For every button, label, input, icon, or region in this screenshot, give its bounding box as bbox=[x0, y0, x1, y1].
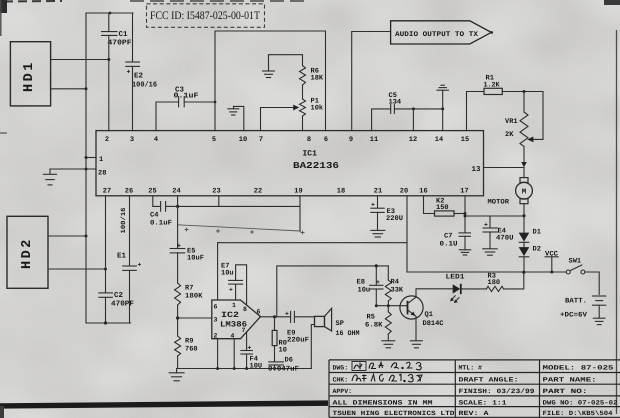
svg-text:3: 3 bbox=[130, 136, 134, 144]
wire E1 to bottom rail bbox=[129, 270, 131, 323]
potentiometer VR1 bbox=[520, 112, 528, 146]
svg-text:26: 26 bbox=[125, 188, 133, 196]
capacitor C7 bbox=[459, 233, 471, 250]
svg-text:4: 4 bbox=[154, 136, 158, 144]
svg-text:33K: 33K bbox=[391, 287, 404, 295]
svg-text:SCALE: 1:1: SCALE: 1:1 bbox=[459, 399, 507, 406]
VR1 wiper arrow bbox=[527, 137, 533, 143]
wire node B to IC2 pin 3 bbox=[178, 317, 212, 319]
svg-text:10U: 10U bbox=[250, 363, 263, 371]
svg-text:134: 134 bbox=[389, 99, 402, 107]
resistor R6 bbox=[300, 66, 306, 85]
junction C4 / pin24 / E5 bbox=[176, 205, 179, 208]
capacitor E1 electrolytic bbox=[123, 262, 142, 271]
svg-text:D1: D1 bbox=[533, 229, 541, 237]
wire VR1 top lead bbox=[523, 92, 525, 113]
capacitor C2 bbox=[99, 293, 113, 297]
svg-text:24: 24 bbox=[172, 188, 180, 196]
wire E8 top lead bbox=[375, 266, 377, 285]
junction HD2 bottom / pin27 riser bbox=[104, 268, 107, 271]
capacitor E3 electrolytic bbox=[371, 202, 384, 230]
wire E5 to R7 bbox=[177, 253, 179, 283]
svg-text:+: + bbox=[229, 287, 233, 294]
supply rail to pin 20 bbox=[218, 242, 407, 244]
svg-text:DWG:: DWG: bbox=[333, 365, 349, 372]
potentiometer P1 bbox=[300, 99, 306, 116]
wire R1 to VR1 top bbox=[502, 91, 543, 93]
svg-text:D6: D6 bbox=[285, 357, 293, 365]
wire C3 to pin5 riser bbox=[184, 101, 215, 103]
junction C3 / pin5 riser bbox=[214, 101, 217, 104]
battery BATT bbox=[593, 296, 606, 318]
diode D2 bbox=[519, 247, 530, 257]
ground (below C7) bbox=[459, 250, 470, 255]
LED1 bbox=[450, 284, 461, 303]
capacitor C3 bbox=[179, 97, 185, 107]
VCC label bbox=[545, 251, 558, 273]
capacitor F4 bypass electrolytic bbox=[241, 345, 252, 355]
svg-text:19: 19 bbox=[294, 188, 302, 196]
ground (pin 10) bbox=[228, 106, 239, 115]
svg-text:18: 18 bbox=[337, 188, 345, 196]
svg-text:FCC ID: I5487-025-00-01T: FCC ID: I5487-025-00-01T bbox=[150, 10, 260, 22]
wire D2 to VCC rail bbox=[523, 257, 525, 273]
capacitor E4 electrolytic bbox=[483, 216, 497, 249]
capacitor C4 bbox=[161, 202, 166, 212]
IC1 pin labels top row bbox=[105, 136, 469, 144]
svg-text:470PF: 470PF bbox=[108, 39, 133, 48]
svg-text:10k: 10k bbox=[311, 104, 324, 113]
svg-text:0.1U: 0.1U bbox=[440, 241, 458, 249]
svg-text:11: 11 bbox=[370, 136, 378, 144]
junction motor bottom bbox=[522, 214, 525, 217]
svg-text:180: 180 bbox=[488, 279, 501, 287]
svg-text:23: 23 bbox=[212, 188, 220, 196]
wire C1 riser upper bbox=[108, 13, 110, 31]
svg-text:DWG NO: 07-025-02: DWG NO: 07-025-02 bbox=[543, 399, 618, 406]
wire R5 to ground bbox=[387, 334, 389, 341]
junction node B (R7/R9/IC2 pin3) bbox=[176, 316, 179, 319]
resistor R0 (box) bbox=[272, 317, 277, 362]
svg-text:R5: R5 bbox=[367, 314, 375, 322]
svg-text:SW1: SW1 bbox=[569, 258, 582, 266]
wire R4 to base node bbox=[387, 301, 389, 306]
wire left bus riser bbox=[85, 13, 87, 323]
svg-text:AUDIO OUTPUT TO TX: AUDIO OUTPUT TO TX bbox=[395, 31, 479, 39]
capacitor E9 electrolytic bbox=[285, 311, 294, 323]
wire motor top lead bbox=[523, 168, 525, 178]
svg-text:DRAFT ANGLE:: DRAFT ANGLE: bbox=[459, 377, 519, 384]
wire F4 to ground rail bbox=[246, 354, 248, 369]
IC1 pin labels bottom row bbox=[103, 188, 469, 196]
wire faint link E5 to pin 19 bbox=[178, 225, 305, 235]
wire HD1 bottom output bbox=[51, 88, 86, 90]
wire pin 26 riser bbox=[129, 196, 131, 266]
ground (below battery) bbox=[593, 318, 605, 324]
svg-text:27: 27 bbox=[103, 188, 111, 196]
svg-text:IC2: IC2 bbox=[221, 311, 239, 320]
diode D1 bbox=[519, 233, 530, 243]
svg-text:MOTOR: MOTOR bbox=[488, 199, 510, 207]
svg-text:1.2K: 1.2K bbox=[484, 82, 501, 90]
svg-text:REV: A: REV: A bbox=[459, 410, 489, 417]
svg-text:R4: R4 bbox=[391, 279, 399, 287]
svg-text:M: M bbox=[522, 189, 527, 197]
svg-text:22: 22 bbox=[254, 188, 262, 196]
svg-text:20: 20 bbox=[400, 188, 408, 196]
HD2 block bbox=[7, 216, 48, 288]
wire E9 to speaker bbox=[295, 316, 315, 318]
svg-text:10uF: 10uF bbox=[187, 255, 204, 263]
svg-text:HD2: HD2 bbox=[20, 237, 35, 269]
svg-text:760: 760 bbox=[185, 346, 198, 354]
svg-text:180K: 180K bbox=[185, 293, 203, 301]
wire pin 13 to motor bbox=[484, 167, 525, 169]
wire E8 to base node bbox=[375, 289, 377, 306]
wire motor bottom lead bbox=[523, 204, 525, 233]
wire E2 riser upper bbox=[132, 13, 134, 62]
junction top rail / C1 bbox=[109, 12, 112, 15]
wire pin 10 riser bbox=[234, 106, 244, 130]
resistor R1 (box) bbox=[484, 88, 502, 94]
junction HD1 bottom / left bus bbox=[85, 87, 88, 90]
svg-text:+: + bbox=[376, 279, 380, 286]
wire node A horizontal (pins 23,19) bbox=[178, 205, 300, 207]
title block CHK handwriting bbox=[352, 374, 422, 382]
svg-text:21: 21 bbox=[374, 188, 382, 196]
wire pin 23 stub bbox=[218, 196, 220, 207]
wire pin 19 riser bbox=[299, 196, 301, 232]
svg-text:C2: C2 bbox=[114, 291, 124, 300]
svg-text:7: 7 bbox=[259, 136, 263, 144]
wire E2 to pin 3 bbox=[132, 66, 134, 130]
wire pin 12 riser bbox=[412, 109, 414, 131]
wire C1 to pin 2 bbox=[108, 35, 110, 130]
transistor Q1 bbox=[400, 296, 423, 319]
wire R6 top lead bbox=[302, 55, 304, 66]
VCC rail wire bbox=[407, 271, 566, 273]
wire pin 20 riser bbox=[406, 196, 408, 272]
wire IC2 output bbox=[261, 316, 291, 318]
svg-text:0.1uF: 0.1uF bbox=[150, 220, 172, 228]
junction output / R0 bbox=[273, 315, 276, 318]
top supply rail bbox=[86, 12, 133, 14]
svg-text:HD1: HD1 bbox=[22, 60, 37, 92]
ground (below E4) bbox=[483, 249, 497, 255]
wire pin 7 riser to P1 wiper bbox=[261, 108, 295, 131]
wire HD2 top output bbox=[48, 235, 86, 237]
wire motor net to pin 17 net bbox=[465, 215, 524, 217]
svg-text:6: 6 bbox=[324, 136, 328, 144]
junction HD1 top wire bbox=[107, 58, 110, 61]
svg-text:D814C: D814C bbox=[423, 320, 444, 328]
wire HD2 bottom output bbox=[48, 268, 106, 270]
speaker SP bbox=[315, 308, 332, 331]
op-amp IC2 body bbox=[212, 300, 261, 339]
svg-text:220U: 220U bbox=[386, 215, 403, 223]
svg-text:MTL: #: MTL: # bbox=[459, 365, 483, 372]
svg-text:470PF: 470PF bbox=[111, 300, 134, 309]
wire Q1 emitter to ground bbox=[415, 316, 417, 340]
ground (below R5) bbox=[382, 341, 395, 348]
svg-text:14: 14 bbox=[435, 136, 443, 144]
wire pin 21 riser bbox=[377, 196, 379, 208]
junction base / E8 bbox=[375, 304, 378, 307]
svg-text:BATT.: BATT. bbox=[565, 298, 587, 306]
wire pin 4 riser bbox=[156, 102, 178, 131]
ground (below E3) bbox=[371, 230, 385, 237]
svg-text:APPV:: APPV: bbox=[333, 388, 353, 395]
svg-text:0.1uF: 0.1uF bbox=[174, 92, 200, 101]
svg-text:17: 17 bbox=[460, 188, 468, 196]
svg-text:5: 5 bbox=[212, 136, 216, 144]
wire C5 to pin 14 riser bbox=[394, 108, 442, 110]
svg-text:+: + bbox=[371, 202, 375, 209]
junction bottom rail / C2 bbox=[104, 321, 107, 324]
capacitor C6 bbox=[269, 362, 284, 369]
svg-text:FILE: D:\KB5\504: FILE: D:\KB5\504 bbox=[543, 410, 613, 417]
wire pin 9 riser to audio banner bbox=[352, 32, 391, 131]
svg-text:2: 2 bbox=[105, 136, 109, 144]
svg-text:16 OHM: 16 OHM bbox=[336, 330, 360, 338]
svg-text:8: 8 bbox=[243, 306, 247, 313]
wire pin 16 stub bbox=[424, 196, 435, 214]
switch SW1 bbox=[566, 265, 585, 274]
wire R5 top lead bbox=[387, 306, 389, 312]
svg-text:470U: 470U bbox=[496, 235, 514, 243]
wire LED1 to R3 bbox=[461, 288, 487, 290]
svg-text:Q1: Q1 bbox=[425, 311, 433, 319]
wire VR1 wiper return bbox=[530, 92, 543, 140]
svg-text:MODEL: 87-025: MODEL: 87-025 bbox=[543, 365, 614, 372]
junction R1 wire / VR1 bbox=[523, 90, 526, 93]
svg-text:220uF: 220uF bbox=[287, 337, 309, 345]
ground (inverted, above pin 14) bbox=[437, 85, 448, 90]
svg-text:BA22136: BA22136 bbox=[293, 161, 339, 171]
junction HD2 top / left bus bbox=[85, 235, 88, 238]
HD1 block bbox=[10, 42, 50, 106]
wire IC2 pin 6 riser bbox=[217, 243, 219, 300]
resistor R5 bbox=[385, 312, 391, 334]
wire D1 to D2 bbox=[523, 242, 525, 247]
svg-text:2: 2 bbox=[214, 333, 218, 340]
wire output coupling riser to E8/R4 bbox=[277, 266, 389, 317]
junction pin28 wire / left bus bbox=[85, 168, 88, 171]
wire R7 to node B bbox=[177, 305, 179, 336]
wire E5 riser bbox=[177, 206, 179, 248]
svg-text:18K: 18K bbox=[311, 75, 324, 83]
svg-text:+: + bbox=[484, 222, 488, 229]
svg-text:16: 16 bbox=[419, 188, 427, 196]
wire ground to R6 top bbox=[269, 54, 303, 56]
wire R6 to P1 bbox=[302, 85, 304, 99]
resistor R7 bbox=[175, 283, 181, 305]
svg-text:R9: R9 bbox=[185, 338, 193, 346]
svg-text:25: 25 bbox=[148, 188, 156, 196]
svg-text:LED1: LED1 bbox=[446, 274, 465, 282]
wire E7 loop to IC2 pin 8 bbox=[236, 265, 247, 305]
wire C2 to bottom rail bbox=[105, 297, 107, 323]
wire pin14 riser to upper ground bbox=[442, 90, 444, 109]
audio ground rail bbox=[177, 368, 311, 370]
capacitor E2 electrolytic bbox=[126, 62, 140, 76]
svg-text:CHK:: CHK: bbox=[333, 377, 349, 384]
svg-text:1: 1 bbox=[232, 302, 236, 309]
wire P1 to pin 8 bbox=[302, 116, 304, 131]
junction rail pins bbox=[216, 367, 276, 370]
capacitor E7 electrolytic bbox=[229, 280, 243, 293]
svg-text:10u: 10u bbox=[221, 270, 234, 278]
junction C5 wire / pin 12 riser bbox=[412, 107, 415, 110]
wire Q1 base bbox=[376, 305, 407, 307]
wire speaker return bbox=[311, 325, 314, 369]
title block DWG handwriting bbox=[352, 362, 421, 371]
VR1 bottom arrow onto pin13 wire bbox=[521, 162, 527, 167]
P1 wiper arrow bbox=[293, 105, 299, 111]
svg-text:6.8K: 6.8K bbox=[365, 322, 383, 330]
svg-text:28: 28 bbox=[98, 170, 106, 178]
svg-text:PART NO:: PART NO: bbox=[543, 388, 588, 395]
wire pin 25 stub bbox=[153, 196, 160, 207]
svg-text:10: 10 bbox=[279, 347, 287, 355]
wire Q1 collector bbox=[416, 289, 453, 297]
wire pin 17 riser bbox=[464, 196, 466, 233]
resistor R4 bbox=[385, 280, 391, 301]
svg-text:2K: 2K bbox=[505, 131, 514, 139]
svg-text:SP: SP bbox=[336, 320, 344, 328]
wire C4 to junction bbox=[166, 205, 178, 207]
wire pin 24 stub bbox=[177, 196, 179, 207]
wire IC2 pin2 pin4 grounds bbox=[218, 339, 235, 369]
svg-text:+: + bbox=[127, 69, 131, 76]
svg-text:VR1: VR1 bbox=[505, 118, 518, 126]
svg-text:100/16: 100/16 bbox=[132, 81, 157, 90]
junction coupling / E8 bbox=[375, 264, 378, 267]
wire pin 14 riser bbox=[442, 109, 444, 131]
ground (left of IC1) bbox=[44, 169, 57, 185]
svg-text:R7: R7 bbox=[185, 285, 193, 293]
junction pin17 / K2 bbox=[464, 212, 467, 215]
wire pin 15 riser bbox=[467, 92, 485, 131]
svg-text:6: 6 bbox=[257, 309, 261, 316]
wire pin 1 stub bbox=[86, 157, 96, 159]
svg-text:C4: C4 bbox=[150, 212, 158, 220]
resistor K2 (box) bbox=[435, 211, 455, 216]
motor M bbox=[516, 178, 533, 204]
svg-text:E1: E1 bbox=[117, 253, 127, 261]
wire VR1 bottom lead bbox=[523, 147, 525, 167]
svg-text:C1: C1 bbox=[119, 30, 129, 39]
wire pin 11 riser bbox=[372, 109, 391, 131]
svg-text:15: 15 bbox=[461, 136, 469, 144]
wire R9 to audio ground rail bbox=[177, 356, 179, 369]
ground (below Q1) bbox=[410, 341, 422, 348]
capacitor E5 electrolytic bbox=[170, 243, 185, 253]
svg-text:150: 150 bbox=[436, 204, 449, 212]
capacitor C5 bbox=[391, 105, 395, 114]
junction pin14 riser bbox=[441, 107, 444, 110]
svg-text:13: 13 bbox=[472, 165, 482, 174]
wire pin 27 riser bbox=[105, 196, 107, 293]
capacitor E8 electrolytic bbox=[370, 279, 383, 289]
svg-text:9: 9 bbox=[349, 136, 353, 144]
svg-text:0.047uF: 0.047uF bbox=[268, 366, 299, 374]
svg-text:7: 7 bbox=[242, 327, 246, 334]
FCC ID label box bbox=[147, 4, 265, 28]
junction pin17 / motor net bbox=[464, 215, 467, 218]
svg-text:D2: D2 bbox=[533, 246, 541, 254]
svg-text:8: 8 bbox=[307, 136, 311, 144]
svg-text:6: 6 bbox=[214, 304, 218, 311]
svg-text:12: 12 bbox=[409, 136, 417, 144]
svg-text:+: + bbox=[177, 243, 181, 250]
svg-text:+: + bbox=[285, 311, 289, 318]
wire K2 to pin17 riser bbox=[454, 213, 465, 215]
junction VCC rail / VCC stem bbox=[550, 271, 553, 274]
wire R3 to VCC rail bbox=[504, 272, 524, 289]
junction VCC rail / D2 branch bbox=[522, 271, 525, 274]
svg-text:1: 1 bbox=[99, 156, 103, 164]
svg-text:3: 3 bbox=[214, 317, 218, 324]
wire IC2 pin1 lead bbox=[235, 284, 237, 300]
svg-text:E2: E2 bbox=[134, 72, 144, 81]
svg-text:100/16: 100/16 bbox=[120, 207, 127, 233]
bottom left rail bbox=[86, 322, 131, 324]
wire R4 top lead bbox=[387, 266, 389, 280]
wire pin 28 to ground bbox=[50, 168, 96, 170]
junction base / R4,R5 bbox=[387, 304, 390, 307]
svg-text:10u: 10u bbox=[358, 287, 371, 295]
ground (audio, below R9) bbox=[169, 369, 184, 381]
ground (above R6) bbox=[263, 55, 275, 78]
svg-text:ALL DIMENSIONS IN MM: ALL DIMENSIONS IN MM bbox=[333, 399, 433, 406]
wire pin 5 riser and top loop to pin 6 bbox=[215, 31, 326, 131]
wire HD1 top output bbox=[51, 59, 109, 61]
resistor R9 bbox=[175, 336, 181, 356]
svg-text:PART NAME:: PART NAME: bbox=[543, 377, 597, 384]
svg-text:C7: C7 bbox=[444, 233, 452, 241]
wire IC2 pin 7 lead bbox=[246, 332, 248, 350]
svg-text:+: + bbox=[248, 345, 252, 352]
audio output banner bbox=[391, 21, 494, 44]
svg-text:E8: E8 bbox=[357, 279, 365, 287]
title block table bbox=[329, 360, 620, 417]
svg-text:FINISH: 03/23/99: FINISH: 03/23/99 bbox=[459, 388, 535, 395]
IC1 body bbox=[96, 131, 484, 196]
svg-text:10: 10 bbox=[239, 136, 247, 144]
wire switch to battery bbox=[585, 272, 599, 294]
resistor R3 bbox=[487, 286, 504, 291]
junction pin1 / left bus bbox=[85, 156, 88, 159]
svg-text:+: + bbox=[138, 262, 142, 269]
svg-text:TSUEN HING ELECTRONICS LTD: TSUEN HING ELECTRONICS LTD bbox=[333, 410, 455, 417]
svg-text:IC1: IC1 bbox=[303, 150, 318, 159]
capacitor C1 bbox=[102, 32, 118, 36]
svg-text:+DC=6V: +DC=6V bbox=[560, 312, 588, 320]
